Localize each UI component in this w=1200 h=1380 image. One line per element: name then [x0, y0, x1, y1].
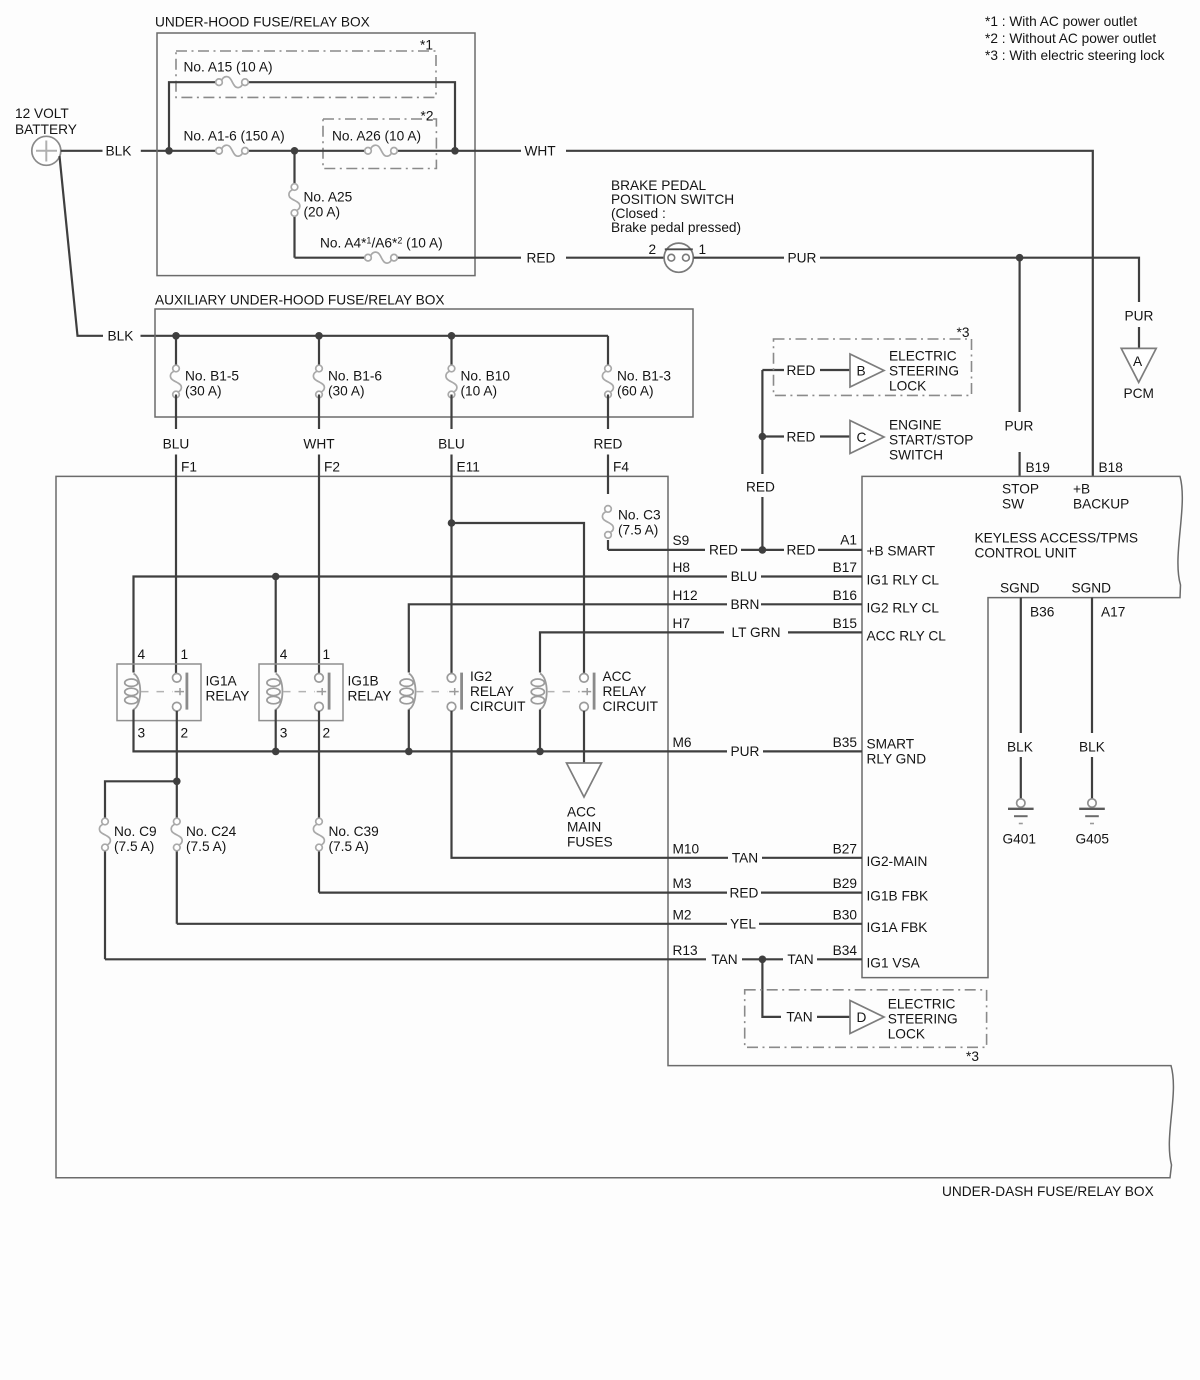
fuse No. C24 (7.5 A)	[171, 818, 182, 851]
svg-text:SGND: SGND	[1072, 581, 1112, 596]
wire RED: S9 to +B SMART (A1)	[608, 549, 862, 551]
svg-text:PUR: PUR	[731, 744, 760, 759]
wire BLK: SGND A17 to G405	[1091, 598, 1093, 799]
svg-text:RED: RED	[787, 429, 816, 444]
svg-text:M10: M10	[673, 841, 700, 856]
wire: fuse A25 branch	[293, 151, 295, 258]
svg-text:A17: A17	[1101, 605, 1125, 620]
svg-text:*1 : With AC power outlet: *1 : With AC power outlet	[985, 14, 1137, 29]
svg-text:+B SMART: +B SMART	[867, 544, 936, 559]
label No. A25 (20 A)	[304, 190, 353, 220]
svg-text:BRAKE PEDAL: BRAKE PEDAL	[611, 178, 706, 193]
svg-text:B29: B29	[833, 876, 857, 891]
junction RED distribution	[759, 546, 767, 554]
ACC MAIN FUSES arrow	[567, 763, 602, 797]
svg-text:(7.5 A): (7.5 A)	[329, 839, 369, 854]
svg-text:RELAY: RELAY	[603, 684, 647, 699]
svg-text:BLU: BLU	[731, 569, 758, 584]
svg-text:PUR: PUR	[1005, 419, 1034, 434]
auxiliary under-hood fuse/relay box outline	[155, 309, 693, 417]
svg-text:BLK: BLK	[1007, 740, 1033, 755]
under-hood fuse/relay box outline	[157, 33, 475, 276]
wire RED: IG1B FBK (M3-B29)	[319, 891, 862, 893]
svg-text:RED: RED	[527, 251, 556, 266]
fuse No. A15 (10 A)	[216, 77, 249, 88]
relay IG1B coil	[267, 674, 283, 710]
svg-text:BLU: BLU	[438, 437, 465, 452]
label No. C3 (7.5 A)	[618, 508, 661, 538]
svg-text:No. A15 (10 A): No. A15 (10 A)	[184, 60, 273, 75]
wire: fuse A4 run to RED output	[295, 257, 522, 259]
label No. B1-3 (60 A)	[617, 369, 671, 399]
junction riser / switch C	[759, 433, 767, 441]
svg-text:*1: *1	[420, 38, 433, 53]
relay IG1A coil	[125, 674, 141, 710]
svg-text:No. A4*1/A6*2 (10 A): No. A4*1/A6*2 (10 A)	[320, 236, 443, 251]
label No. B1-6 (30 A)	[328, 369, 382, 399]
brake pedal position switch SW1	[664, 243, 693, 272]
svg-text:(30 A): (30 A)	[185, 384, 222, 399]
label IG1B RELAY	[348, 674, 392, 704]
wire BLU: IG1 RLY CL (H8-B17) to relay coils	[134, 577, 863, 673]
junction E11 / ACC branch	[448, 519, 456, 527]
keyless access/TPMS control unit caption	[975, 531, 1139, 561]
wire: IG1B coil riser (pin 4)	[275, 577, 277, 673]
svg-text:(30 A): (30 A)	[328, 384, 365, 399]
svg-text:RELAY: RELAY	[206, 689, 250, 704]
label ELECTRIC STEERING LOCK (D)	[888, 997, 958, 1042]
wire YEL: IG1A FBK (M2-B30)	[177, 923, 862, 925]
relay IG1A contact	[173, 673, 187, 711]
svg-text:STOP: STOP	[1002, 482, 1039, 497]
fuse No. B1-5 (30 A)	[170, 336, 181, 429]
svg-text:No. C24: No. C24	[186, 824, 237, 839]
svg-text:No. C39: No. C39	[329, 824, 379, 839]
svg-text:BRN: BRN	[731, 597, 760, 612]
wire: ACC contact to ACC MAIN FUSES	[583, 711, 585, 763]
svg-text:(7.5 A): (7.5 A)	[186, 839, 226, 854]
IG2 relay circuit coil	[400, 674, 416, 710]
svg-text:B16: B16	[833, 588, 858, 603]
junction at A25 tap	[291, 147, 299, 155]
svg-text:BACKUP: BACKUP	[1073, 497, 1129, 512]
svg-text:B17: B17	[833, 560, 857, 575]
svg-text:UNDER-DASH FUSE/RELAY BOX: UNDER-DASH FUSE/RELAY BOX	[942, 1184, 1154, 1199]
label No. C39 (7.5 A)	[329, 824, 379, 854]
wire TAN: branch to electric steering lock D	[762, 959, 850, 1017]
svg-text:RED: RED	[787, 543, 816, 558]
dash-dot option box *3 (electric steering lock D)	[745, 990, 987, 1048]
label ELECTRIC STEERING LOCK (B)	[889, 348, 959, 393]
svg-text:ACC: ACC	[567, 804, 596, 819]
relay IG1A box	[117, 664, 201, 721]
wire TAN: IG2-MAIN (M10-B27)	[452, 711, 863, 858]
wire PUR: switch to STOP SW / PCM	[694, 258, 1140, 349]
svg-text:4: 4	[280, 647, 288, 662]
ground G401	[1008, 799, 1034, 824]
fuse No. A1-6 (150 A)	[216, 145, 249, 156]
svg-text:ELECTRIC: ELECTRIC	[889, 348, 957, 363]
svg-text:ENGINE: ENGINE	[889, 418, 941, 433]
svg-text:TAN: TAN	[732, 851, 758, 866]
svg-text:(Closed :: (Closed :	[611, 206, 666, 221]
svg-text:POSITION SWITCH: POSITION SWITCH	[611, 192, 734, 207]
svg-text:No. A26 (10 A): No. A26 (10 A)	[332, 129, 421, 144]
svg-text:No. C9: No. C9	[114, 824, 157, 839]
junction pin2 / C9 branch	[173, 778, 181, 786]
svg-text:(60 A): (60 A)	[617, 384, 654, 399]
svg-text:ACC: ACC	[603, 669, 632, 684]
fuse No. C9 (7.5 A)	[99, 818, 110, 851]
svg-text:B36: B36	[1030, 605, 1055, 620]
svg-text:3: 3	[138, 726, 146, 741]
svg-text:M6: M6	[673, 735, 692, 750]
svg-text:IG2-MAIN: IG2-MAIN	[867, 854, 928, 869]
label No. B10 (10 A)	[461, 369, 511, 399]
svg-text:12 VOLT: 12 VOLT	[15, 106, 69, 121]
fuse No. B1-3 (60 A)	[602, 336, 613, 429]
fuse No. B10 (10 A)	[446, 336, 457, 429]
svg-text:(7.5 A): (7.5 A)	[618, 523, 658, 538]
svg-text:4: 4	[138, 647, 146, 662]
svg-text:A: A	[1133, 354, 1143, 369]
svg-text:IG1 RLY CL: IG1 RLY CL	[867, 573, 940, 588]
svg-text:IG1B FBK: IG1B FBK	[867, 889, 929, 904]
svg-text:(20 A): (20 A)	[304, 205, 341, 220]
svg-text:+B: +B	[1073, 482, 1090, 497]
svg-text:STEERING: STEERING	[889, 363, 959, 378]
svg-text:KEYLESS ACCESS/TPMS: KEYLESS ACCESS/TPMS	[975, 531, 1139, 546]
svg-text:No. B1-3: No. B1-3	[617, 369, 671, 384]
svg-text:AUXILIARY UNDER-HOOD FUSE/RELA: AUXILIARY UNDER-HOOD FUSE/RELAY BOX	[155, 293, 445, 308]
svg-text:IG1 VSA: IG1 VSA	[867, 955, 921, 970]
svg-text:START/STOP: START/STOP	[889, 433, 973, 448]
junction at A15 right riser	[451, 147, 459, 155]
svg-text:M2: M2	[673, 907, 692, 922]
junction bus / IG1B pin 3	[272, 748, 280, 756]
svg-text:LOCK: LOCK	[888, 1027, 925, 1042]
svg-text:BLK: BLK	[108, 329, 134, 344]
svg-text:F1: F1	[181, 460, 197, 475]
svg-text:G401: G401	[1003, 832, 1036, 847]
svg-text:BLU: BLU	[163, 437, 190, 452]
note legend *1 *2 *3	[985, 14, 1165, 63]
keyless access/TPMS control unit outline	[862, 476, 1182, 977]
svg-text:BLK: BLK	[1079, 740, 1105, 755]
wire PUR: branch down to STOP SW B19	[1018, 258, 1020, 477]
svg-text:IG2: IG2	[470, 669, 492, 684]
svg-text:No. A25: No. A25	[304, 190, 353, 205]
relay IG1A armature link	[141, 688, 184, 695]
svg-text:H7: H7	[673, 616, 691, 631]
fuse No. C3 (7.5 A)	[602, 506, 613, 539]
wire: ACC coil to bus	[539, 710, 541, 752]
label IG1A RELAY	[206, 674, 250, 704]
svg-text:A1: A1	[840, 533, 857, 548]
svg-text:CIRCUIT: CIRCUIT	[470, 699, 526, 714]
svg-text:H8: H8	[673, 560, 691, 575]
svg-text:B34: B34	[833, 943, 858, 958]
ACC relay circuit armature link	[547, 688, 591, 695]
svg-text:WHT: WHT	[303, 437, 335, 452]
svg-text:*3: *3	[966, 1049, 979, 1064]
svg-text:B: B	[857, 364, 866, 379]
label +B BACKUP	[1073, 482, 1129, 512]
svg-text:PCM: PCM	[1124, 386, 1154, 401]
wire: fuse A15 branch (left riser, top run, right riser)	[169, 82, 455, 151]
junction at A15 left riser	[165, 147, 173, 155]
fuse No. A25 (20 A)	[289, 184, 300, 217]
wire: main bus with fuse A1-6 and A26	[245, 150, 521, 152]
svg-text:2: 2	[323, 726, 331, 741]
svg-text:ACC RLY CL: ACC RLY CL	[867, 628, 947, 643]
connector B	[850, 354, 884, 387]
svg-text:R13: R13	[673, 943, 698, 958]
wire: branch through fuse C9 to R13	[105, 781, 177, 959]
label No. B1-5 (30 A)	[185, 369, 239, 399]
svg-text:RLY GND: RLY GND	[867, 752, 927, 767]
svg-text:CIRCUIT: CIRCUIT	[603, 699, 659, 714]
svg-text:TAN: TAN	[787, 952, 813, 967]
svg-text:B35: B35	[833, 735, 858, 750]
svg-text:B18: B18	[1099, 460, 1124, 475]
label ACC RELAY CIRCUIT	[603, 669, 659, 714]
svg-text:RED: RED	[594, 437, 623, 452]
svg-text:TAN: TAN	[786, 1010, 812, 1025]
wire RED: to brake pedal position switch	[566, 257, 664, 259]
ACC relay circuit coil	[531, 674, 547, 710]
wire WHT: under-hood box to +B BACKUP (B18)	[566, 151, 1093, 477]
svg-text:(7.5 A): (7.5 A)	[114, 839, 154, 854]
svg-text:G405: G405	[1076, 832, 1110, 847]
wire: IG1B pin 2 through fuse C39 to M3	[318, 711, 320, 893]
svg-text:S9: S9	[673, 533, 690, 548]
IG2 relay circuit armature link	[416, 688, 459, 695]
brake pedal position switch label	[611, 178, 741, 235]
svg-text:B27: B27	[833, 841, 857, 856]
junction bus / fuse B1-5	[172, 332, 180, 340]
svg-text:Brake pedal pressed): Brake pedal pressed)	[611, 220, 741, 235]
label No. C9 (7.5 A)	[114, 824, 157, 854]
junction H8 / IG1B coil	[272, 573, 280, 581]
svg-text:YEL: YEL	[730, 917, 756, 932]
svg-text:PUR: PUR	[1125, 309, 1154, 324]
wire: IG2 coil to bus	[408, 710, 410, 752]
svg-text:RED: RED	[730, 885, 759, 900]
svg-text:STEERING: STEERING	[888, 1012, 958, 1027]
svg-text:FUSES: FUSES	[567, 834, 613, 849]
wire BLK: battery to auxiliary under-hood fuse/relay box	[60, 156, 181, 336]
wire TAN: IG1 VSA (R13-B34)	[105, 958, 862, 960]
connector D	[850, 1001, 884, 1034]
svg-text:D: D	[857, 1010, 867, 1025]
fuse No. A4*1/A6*2 (10 A)	[365, 252, 398, 263]
junction bus / fuse B1-6	[315, 332, 323, 340]
relay IG1B contact	[315, 673, 329, 711]
wire BLU E11: to IG2 relay contact and ACC branch	[452, 455, 585, 674]
under-dash fuse/relay box outline	[56, 476, 1173, 1177]
svg-text:SGND: SGND	[1000, 581, 1040, 596]
svg-text:MAIN: MAIN	[567, 819, 601, 834]
svg-text:1: 1	[181, 647, 189, 662]
svg-text:F4: F4	[613, 460, 629, 475]
svg-text:No. B1-6: No. B1-6	[328, 369, 382, 384]
label IG2 RELAY CIRCUIT	[470, 669, 526, 714]
svg-text:E11: E11	[457, 460, 480, 475]
label SMART RLY GND	[867, 737, 927, 767]
wire: IG1A pin 2 through fuse C24 to M2	[176, 711, 178, 924]
svg-text:IG1B: IG1B	[348, 674, 379, 689]
svg-text:IG1A FBK: IG1A FBK	[867, 920, 928, 935]
relay IG1B armature link	[283, 688, 326, 695]
junction PUR branch to B19	[1016, 254, 1024, 262]
svg-text:2: 2	[649, 242, 657, 257]
svg-text:B15: B15	[833, 616, 858, 631]
svg-text:C: C	[857, 430, 867, 445]
junction bus / fuse B10	[448, 332, 456, 340]
wire BLK: battery positive to under-hood fuse/relay box	[61, 150, 219, 152]
wire BLK: SGND B36 to G401	[1020, 598, 1022, 799]
junction bus / IG2 coil	[405, 748, 413, 756]
wire WHT F2: to IG1B relay contact	[318, 455, 320, 674]
svg-text:No. B10: No. B10	[461, 369, 511, 384]
battery: 12 VOLT BATTERY	[15, 106, 77, 165]
fuse No. B1-6 (30 A)	[313, 336, 324, 429]
svg-text:*3: *3	[957, 325, 970, 340]
IG2 relay circuit contact	[447, 673, 461, 711]
svg-text:B19: B19	[1026, 460, 1050, 475]
junction R13 / steering lock D	[759, 956, 767, 964]
svg-text:B30: B30	[833, 907, 858, 922]
svg-text:No. B1-5: No. B1-5	[185, 369, 239, 384]
svg-text:WHT: WHT	[525, 144, 557, 159]
fuse No. C39 (7.5 A)	[313, 818, 324, 851]
ground G405	[1079, 799, 1105, 824]
wire: IG1B pin 3 to bus	[275, 710, 277, 752]
svg-text:SW: SW	[1002, 497, 1024, 512]
svg-text:H12: H12	[673, 588, 698, 603]
connector A to PCM	[1121, 348, 1156, 382]
wire BLU F1: to IG1A relay contact	[175, 455, 177, 674]
svg-text:RELAY: RELAY	[470, 684, 514, 699]
svg-text:(10 A): (10 A)	[461, 384, 498, 399]
label STOP SW	[1002, 482, 1039, 512]
dash-dot option box *3 (electric steering lock B)	[774, 339, 972, 395]
svg-text:IG1A: IG1A	[206, 674, 238, 689]
svg-text:No. C3: No. C3	[618, 508, 661, 523]
junction bus / ACC coil	[536, 748, 544, 756]
svg-text:LOCK: LOCK	[889, 378, 926, 393]
wire: auxiliary box feed bus	[176, 335, 608, 337]
svg-text:RELAY: RELAY	[348, 689, 392, 704]
svg-text:UNDER-HOOD FUSE/RELAY BOX: UNDER-HOOD FUSE/RELAY BOX	[155, 15, 370, 30]
svg-text:3: 3	[280, 726, 288, 741]
svg-text:CONTROL UNIT: CONTROL UNIT	[975, 546, 1078, 561]
label ENGINE START/STOP SWITCH	[889, 418, 973, 463]
wire RED F4: through fuse C3 to S9	[607, 455, 609, 550]
connector C	[850, 421, 884, 454]
svg-text:*2: *2	[421, 109, 434, 124]
svg-text:RED: RED	[787, 363, 816, 378]
svg-text:F2: F2	[324, 460, 340, 475]
svg-text:M3: M3	[673, 876, 692, 891]
svg-text:2: 2	[181, 726, 189, 741]
svg-text:1: 1	[323, 647, 331, 662]
dash-dot option box *2	[323, 119, 436, 169]
wire BRN: IG2 RLY CL (H12-B16) to IG2 relay coil	[409, 604, 862, 672]
svg-text:SMART: SMART	[867, 737, 915, 752]
label ACC MAIN FUSES	[567, 804, 613, 849]
svg-text:BLK: BLK	[106, 144, 132, 159]
label No. C24 (7.5 A)	[186, 824, 237, 854]
svg-text:PUR: PUR	[788, 251, 817, 266]
svg-text:RED: RED	[709, 543, 738, 558]
fuse No. A26 (10 A)	[365, 145, 398, 156]
svg-text:*3 : With electric steering lo: *3 : With electric steering lock	[985, 48, 1165, 63]
svg-text:*2 : Without AC power outlet: *2 : Without AC power outlet	[985, 31, 1156, 46]
svg-text:LT GRN: LT GRN	[732, 625, 781, 640]
svg-text:ELECTRIC: ELECTRIC	[888, 997, 956, 1012]
wire LT GRN: ACC RLY CL (H7-B15) to ACC relay coil	[540, 632, 862, 672]
wire RED: riser to engine start/stop switch and electric steering lock	[762, 370, 850, 550]
wire RED: branch to connector C	[762, 435, 784, 437]
svg-text:IG2 RLY CL: IG2 RLY CL	[867, 600, 940, 615]
relay IG1B box	[259, 664, 343, 721]
wire PUR: SMART RLY GND bus (M6-B35)	[134, 710, 863, 752]
svg-text:No. A1-6 (150 A): No. A1-6 (150 A)	[184, 129, 285, 144]
svg-text:TAN: TAN	[711, 952, 737, 967]
svg-text:RED: RED	[746, 480, 775, 495]
svg-text:1: 1	[699, 242, 707, 257]
svg-text:BATTERY: BATTERY	[15, 122, 77, 137]
dash-dot option box *1	[176, 51, 436, 97]
svg-text:SWITCH: SWITCH	[889, 448, 943, 463]
ACC relay circuit contact	[580, 673, 594, 711]
